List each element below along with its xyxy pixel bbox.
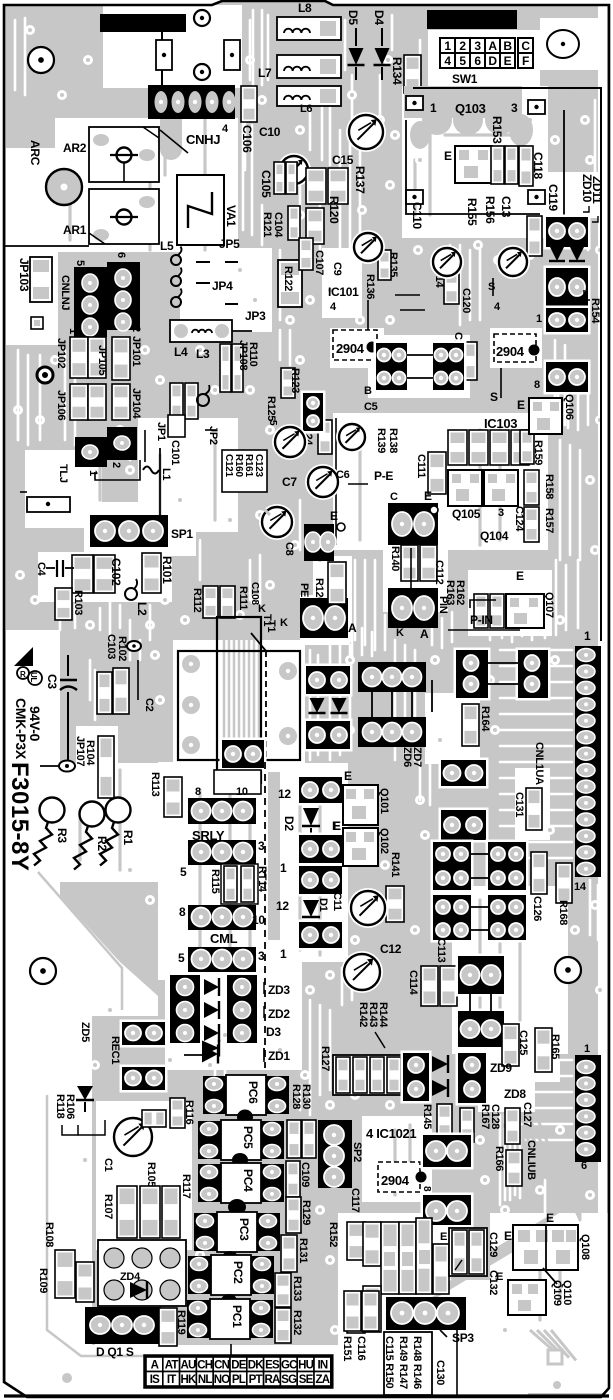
resistor R134 xyxy=(404,55,421,93)
country code table xyxy=(145,1356,333,1388)
transformer T1 outer box xyxy=(178,651,300,760)
svg-text:E: E xyxy=(344,769,352,783)
capacitor C101b pads xyxy=(170,383,183,419)
svg-text:1: 1 xyxy=(430,101,437,115)
capacitor C102 xyxy=(72,555,93,593)
oval test point 2 xyxy=(127,641,141,651)
zener ZD10 diode xyxy=(550,247,564,261)
capacitor C105 pads xyxy=(274,162,285,194)
svg-text:PC2: PC2 xyxy=(231,1261,245,1284)
junction dot PC3 xyxy=(222,1251,238,1265)
connector br b xyxy=(456,1009,507,1050)
svg-text:R111: R111 xyxy=(237,586,249,610)
svg-text:ZD5: ZD5 xyxy=(79,1022,91,1042)
svg-text:A: A xyxy=(488,39,497,53)
svg-text:R165: R165 xyxy=(549,1034,561,1059)
gray traces bottom right corner xyxy=(530,1330,555,1352)
svg-text:1: 1 xyxy=(444,39,451,53)
svg-text:C3: C3 xyxy=(45,674,59,689)
svg-text:TLJ: TLJ xyxy=(57,464,69,483)
svg-text:2904: 2904 xyxy=(336,341,365,356)
svg-text:CNHJ: CNHJ xyxy=(186,132,220,147)
svg-text:8: 8 xyxy=(179,905,186,919)
connector br a xyxy=(456,954,507,997)
optocoupler PC3 xyxy=(194,1213,217,1251)
mounting slot with dot xyxy=(27,497,70,512)
svg-text:C6: C6 xyxy=(336,469,350,481)
resistor R124 pads xyxy=(318,420,332,454)
connector bc b xyxy=(421,1193,474,1228)
svg-text:R136: R136 xyxy=(364,274,376,299)
oval test point xyxy=(59,761,75,772)
svg-text:C: C xyxy=(390,491,398,503)
svg-text:K: K xyxy=(280,617,288,629)
svg-text:Q110: Q110 xyxy=(561,1280,573,1305)
svg-text:CNL1UA: CNL1UA xyxy=(533,742,545,785)
label ZD1 bracket xyxy=(263,1048,265,1062)
connector dcol c xyxy=(297,864,345,897)
svg-text:Q106: Q106 xyxy=(563,394,575,420)
switch SW1 xyxy=(440,38,455,53)
junction dot c xyxy=(416,1172,427,1183)
wire R118 bracket xyxy=(62,1125,78,1135)
wire SP3 pointer xyxy=(440,1330,447,1337)
svg-text:C110: C110 xyxy=(410,202,424,229)
svg-text:R127: R127 xyxy=(319,1046,331,1071)
svg-text:C4: C4 xyxy=(35,562,47,577)
svg-text:R119: R119 xyxy=(175,1310,187,1335)
gray dot bl xyxy=(62,1373,72,1383)
svg-text:R131: R131 xyxy=(297,1238,309,1263)
svg-text:C12: C12 xyxy=(380,942,402,956)
svg-text:3: 3 xyxy=(511,101,518,115)
IC102 grid mid pads xyxy=(384,1252,395,1266)
via pads speckle xyxy=(25,25,35,35)
svg-text:8: 8 xyxy=(534,379,540,391)
component box R160 group xyxy=(222,450,267,492)
svg-text:R121: R121 xyxy=(261,212,273,237)
diagonal trace bundle bottom right xyxy=(498,1120,560,1205)
svg-text:R149 R147: R149 R147 xyxy=(397,1336,409,1389)
connector right d xyxy=(544,360,591,395)
svg-text:C113: C113 xyxy=(435,938,447,963)
resistor R153 pads xyxy=(491,146,504,184)
resistor R115/RT14 box xyxy=(221,864,258,904)
wire C132 pointer xyxy=(455,1260,462,1270)
svg-text:5: 5 xyxy=(180,865,187,879)
wire br xyxy=(469,994,471,1011)
wire slot left xyxy=(20,491,27,493)
gray traces in white pockets xyxy=(148,130,151,250)
capacitor C116 pads xyxy=(344,1291,361,1331)
fiducial left xyxy=(30,958,56,984)
transistor Q102 box xyxy=(343,828,378,866)
svg-text:D: D xyxy=(488,54,497,68)
connector z1 left xyxy=(304,664,353,697)
svg-text:R137: R137 xyxy=(353,166,367,194)
dashed separation line xyxy=(264,762,266,1068)
diode D3 xyxy=(204,1025,219,1041)
svg-text:D4: D4 xyxy=(372,10,386,25)
connector SP1 xyxy=(90,515,168,547)
resistor R162/R163 pads xyxy=(474,594,488,628)
svg-text:R: R xyxy=(20,670,26,679)
resistor R102 pads xyxy=(113,668,129,714)
svg-text:R156: R156 xyxy=(483,196,497,224)
wire Q103 pocket outline xyxy=(406,120,540,214)
svg-text:C112: C112 xyxy=(433,560,445,585)
svg-text:IS: IS xyxy=(150,1374,160,1386)
mounting pad Q103 c xyxy=(406,190,423,204)
resistor pads R105 xyxy=(140,1186,160,1238)
svg-text:S: S xyxy=(488,281,495,293)
svg-text:C10: C10 xyxy=(259,125,281,139)
junction dot PC5 xyxy=(232,1153,248,1167)
connector CNHJ xyxy=(148,85,235,119)
wire P-IN bracket xyxy=(470,600,496,608)
varistor VA1 box xyxy=(177,175,224,245)
svg-text:10: 10 xyxy=(252,913,265,927)
svg-text:S: S xyxy=(490,390,498,404)
connector CNLIUB header xyxy=(575,1055,601,1162)
connector zd col a xyxy=(401,1051,432,1104)
svg-text:R1: R1 xyxy=(121,830,135,845)
svg-text:JP104: JP104 xyxy=(130,388,142,419)
svg-text:C101: C101 xyxy=(169,440,181,465)
svg-text:Q101: Q101 xyxy=(378,788,390,814)
resistor R132 pads xyxy=(275,1308,291,1343)
connector 2x1 mid a xyxy=(454,648,491,701)
connector CNL1UA header xyxy=(575,646,601,877)
transistor photo mid-right xyxy=(496,245,530,279)
inductor coil symbols JP5/JP4/JP3 xyxy=(171,255,181,265)
svg-text:Q102: Q102 xyxy=(378,828,390,854)
wire border to AR xyxy=(4,245,89,247)
svg-text:L3: L3 xyxy=(196,347,210,361)
resistor R126 xyxy=(328,562,346,604)
transistor photo left of C7 xyxy=(272,424,308,460)
svg-text:PE: PE xyxy=(298,583,310,597)
transistor Q107 box xyxy=(506,594,544,628)
svg-text:Q104: Q104 xyxy=(480,529,509,543)
svg-text:A: A xyxy=(348,621,357,635)
svg-text:B: B xyxy=(364,385,372,397)
connector cr b1 xyxy=(439,758,489,789)
svg-text:12: 12 xyxy=(276,899,289,913)
wire R142 pointer xyxy=(375,1032,385,1048)
white routing pockets xyxy=(103,5,242,88)
chip pads xyxy=(142,1110,166,1127)
svg-text:AU: AU xyxy=(180,1359,196,1371)
svg-text:C111: C111 xyxy=(415,454,427,478)
inductor L8 xyxy=(277,17,341,40)
arrester AR2 box xyxy=(89,127,159,182)
svg-text:R154: R154 xyxy=(589,298,601,324)
svg-text:Q107: Q107 xyxy=(543,592,555,618)
svg-text:C131: C131 xyxy=(513,792,525,817)
connector SRLY row1 xyxy=(188,798,256,824)
svg-text:R160: R160 xyxy=(233,454,244,477)
svg-text:E: E xyxy=(504,54,512,68)
pour tongue over Q103 labels xyxy=(404,86,522,118)
wire Q109 pointer xyxy=(543,1268,557,1284)
wire P-E xyxy=(348,483,368,485)
fiducial right xyxy=(555,957,581,983)
svg-text:ZD7: ZD7 xyxy=(411,747,423,767)
pin ring xyxy=(337,523,345,531)
svg-text:D Q1 S: D Q1 S xyxy=(96,1345,134,1359)
svg-text:CH: CH xyxy=(197,1359,213,1371)
resistor R165 xyxy=(535,1028,552,1072)
resistor R103 pads xyxy=(55,588,72,620)
connector CML row xyxy=(188,947,256,972)
diode ZD8 xyxy=(432,1080,448,1096)
resistor R120 pads xyxy=(306,208,324,244)
svg-text:SP1: SP1 xyxy=(171,527,193,541)
resistor R3 circle xyxy=(40,798,65,823)
capacitor C122 xyxy=(464,342,477,380)
wire JP1 vertical xyxy=(144,430,146,462)
capacitor C118 pad xyxy=(519,146,533,186)
optocoupler PC2 xyxy=(188,1256,211,1294)
svg-text:PC3: PC3 xyxy=(237,1218,251,1241)
resistor pads R107 xyxy=(117,1186,137,1238)
svg-text:1: 1 xyxy=(280,861,287,875)
svg-text:5: 5 xyxy=(459,54,466,68)
extra white channels xyxy=(14,20,17,90)
svg-text:C108: C108 xyxy=(249,582,260,605)
svg-text:R144: R144 xyxy=(377,1002,389,1028)
connector D Q1 S xyxy=(85,1307,161,1344)
wire cr row xyxy=(471,853,488,855)
connector TLJ xyxy=(75,437,107,467)
svg-text:E: E xyxy=(546,1211,554,1225)
svg-text:P-IN: P-IN xyxy=(470,613,493,627)
svg-text:R139: R139 xyxy=(375,428,387,453)
optocoupler PC4 xyxy=(198,1164,221,1202)
connector dcol a xyxy=(297,775,345,806)
diode ZD3 xyxy=(204,979,219,995)
resistor R123 pads xyxy=(281,368,295,398)
comparator 2904 box b xyxy=(494,334,536,362)
jumper JP103 xyxy=(30,257,52,302)
svg-text:PC4: PC4 xyxy=(241,1169,255,1192)
capacitor C120 pads xyxy=(444,270,459,304)
transistor photo mid-left xyxy=(351,230,385,264)
svg-text:E: E xyxy=(424,489,432,503)
capacitor C101 xyxy=(168,415,185,437)
svg-text:NO: NO xyxy=(214,1374,231,1386)
diode ZD2 xyxy=(204,1002,219,1018)
svg-text:C106: C106 xyxy=(240,125,254,153)
board bottom edge thick line xyxy=(4,1394,609,1397)
diode near PC6 xyxy=(202,1041,219,1056)
capacitor C106 xyxy=(241,86,257,122)
transistor photo bottom-left xyxy=(111,1115,155,1159)
svg-text:CNLNJ: CNLNJ xyxy=(59,275,71,310)
wire JP4 dash xyxy=(196,261,210,263)
inductor L4 xyxy=(170,320,232,342)
svg-text:E: E xyxy=(516,569,524,583)
svg-text:E: E xyxy=(504,1229,512,1243)
resistor R108 pads xyxy=(55,1250,75,1298)
svg-text:C125: C125 xyxy=(517,1030,529,1055)
jumper row JP106/JP104 xyxy=(70,384,88,420)
resistor R131 pads xyxy=(281,1235,297,1272)
svg-text:RA: RA xyxy=(264,1374,280,1386)
svg-text:2: 2 xyxy=(459,39,466,53)
optocoupler PC1 xyxy=(187,1300,210,1338)
svg-text:ZA: ZA xyxy=(316,1374,330,1386)
junction dot PC6 xyxy=(237,1110,253,1125)
connector dn right xyxy=(227,975,257,1043)
svg-text:R157: R157 xyxy=(543,508,555,533)
jumper JP107/R104 pads xyxy=(98,736,114,798)
svg-text:R123: R123 xyxy=(289,368,301,393)
inductor L6 xyxy=(277,86,341,106)
svg-text:C127: C127 xyxy=(521,1102,533,1127)
mounting pad Q103 d xyxy=(528,190,545,204)
transistor Q108 box xyxy=(513,1225,578,1270)
svg-text:E: E xyxy=(330,509,338,523)
arrester AR1 box xyxy=(89,189,159,244)
svg-text:R166: R166 xyxy=(493,1146,505,1171)
svg-text:SP3: SP3 xyxy=(452,1331,474,1345)
svg-text:L4: L4 xyxy=(174,345,188,359)
connector SP2 xyxy=(318,1120,352,1188)
wire AR2 diagonal xyxy=(160,130,188,153)
transistor photo top xyxy=(346,112,386,152)
svg-text:1: 1 xyxy=(584,629,591,643)
capacitor C109 pads xyxy=(286,1161,300,1197)
label block R148/R146 outline xyxy=(384,1332,432,1395)
mounting pad right xyxy=(224,40,240,70)
inductor symbol small xyxy=(197,394,209,406)
connector pair b xyxy=(431,341,467,393)
svg-text:ZD9: ZD9 xyxy=(490,1061,512,1075)
black bar top-left xyxy=(100,14,186,32)
svg-text:JP103: JP103 xyxy=(17,258,31,292)
svg-text:R134: R134 xyxy=(390,57,404,85)
svg-text:12: 12 xyxy=(278,787,291,801)
svg-text:SW1: SW1 xyxy=(452,72,478,86)
svg-text:1: 1 xyxy=(584,1043,590,1055)
svg-text:REC1: REC1 xyxy=(109,1036,121,1064)
connector REC1 a xyxy=(120,1020,168,1048)
svg-text:1: 1 xyxy=(87,470,99,476)
svg-text:R117: R117 xyxy=(180,1174,192,1199)
svg-text:R105: R105 xyxy=(145,1162,157,1187)
wire T1 diagonal xyxy=(251,633,266,651)
svg-text:JP5: JP5 xyxy=(219,237,240,251)
wire L4 right xyxy=(232,330,252,332)
wire PC to table xyxy=(230,1344,232,1360)
svg-text:SG: SG xyxy=(281,1374,297,1386)
svg-text:JP4: JP4 xyxy=(212,279,233,293)
svg-text:UL: UL xyxy=(29,672,38,682)
svg-text:R108: R108 xyxy=(43,1222,55,1247)
svg-text:R116: R116 xyxy=(183,1100,195,1125)
svg-text:D1: D1 xyxy=(317,898,329,912)
transistor Q106 box xyxy=(529,398,562,434)
svg-text:R148 R146: R148 R146 xyxy=(411,1336,423,1389)
svg-text:Q103: Q103 xyxy=(455,101,486,116)
svg-text:HK: HK xyxy=(180,1374,197,1386)
connector right a xyxy=(544,215,591,250)
svg-text:ARC: ARC xyxy=(28,140,42,166)
svg-text:C119: C119 xyxy=(546,184,560,211)
svg-text:AT: AT xyxy=(165,1359,179,1371)
resistor R158/R157 pads xyxy=(524,470,539,505)
wire conn links xyxy=(407,354,433,356)
resistor R101 xyxy=(142,553,161,593)
svg-text:R138: R138 xyxy=(387,428,399,453)
svg-text:CML: CML xyxy=(210,931,238,946)
gray dot near line xyxy=(564,95,573,104)
svg-text:C129: C129 xyxy=(487,1232,499,1257)
svg-text:HU: HU xyxy=(298,1359,314,1371)
svg-text:JP106: JP106 xyxy=(55,390,67,420)
wire IC101 area lines xyxy=(367,300,369,330)
svg-text:C116: C116 xyxy=(355,1336,367,1361)
capacitor C107 pads xyxy=(299,238,313,270)
transistor Q105 boxes xyxy=(448,470,482,506)
wire L1 vertical xyxy=(159,448,161,520)
svg-text:3: 3 xyxy=(258,839,265,853)
svg-text:E: E xyxy=(517,398,525,412)
capacitor C131 xyxy=(526,788,542,830)
svg-text:RT14: RT14 xyxy=(256,866,268,893)
junction dot PC4 xyxy=(228,1199,246,1215)
svg-text:1: 1 xyxy=(536,313,542,325)
mounting pad Q103 a xyxy=(406,96,423,110)
wire between mid conns xyxy=(488,662,518,664)
pour tongue below CNHJ xyxy=(160,119,182,149)
resistor pads left of ZD4 xyxy=(76,1262,94,1302)
svg-text:GC: GC xyxy=(281,1359,297,1371)
svg-text:T1: T1 xyxy=(265,620,277,632)
connector row3 xyxy=(188,905,256,930)
svg-text:ZD1: ZD1 xyxy=(268,1049,290,1063)
resistor R145 pads xyxy=(437,1104,452,1138)
svg-text:CNLIUB: CNLIUB xyxy=(525,1140,537,1180)
UL triangle mark xyxy=(14,647,33,666)
svg-text:R162: R162 xyxy=(454,580,466,605)
registered mark xyxy=(17,667,29,679)
connector pair a xyxy=(374,341,410,393)
varistor ARC disc xyxy=(46,169,82,205)
UL logo xyxy=(28,671,42,685)
resistor R166 xyxy=(506,1150,522,1186)
connector right b xyxy=(544,266,591,309)
svg-text:IN: IN xyxy=(317,1359,327,1371)
svg-text:C123: C123 xyxy=(253,454,264,477)
svg-text:JP3: JP3 xyxy=(245,309,266,323)
svg-text:ZD4: ZD4 xyxy=(120,1271,141,1283)
svg-text:L1: L1 xyxy=(160,468,172,480)
diode ZD1 xyxy=(202,1046,218,1063)
svg-text:E: E xyxy=(444,149,452,163)
resistor R151 pads xyxy=(362,1291,379,1331)
zener ZD11 diode xyxy=(570,247,584,261)
capacitor C3 symbol xyxy=(67,655,69,676)
resistor R159 pads xyxy=(520,430,534,464)
wire TLJ bracket xyxy=(95,460,140,480)
resistor R168 xyxy=(556,863,572,903)
white trace channels in pour xyxy=(252,10,255,85)
wire SW1 to connector xyxy=(563,110,565,217)
svg-text:2904: 2904 xyxy=(381,1173,410,1188)
